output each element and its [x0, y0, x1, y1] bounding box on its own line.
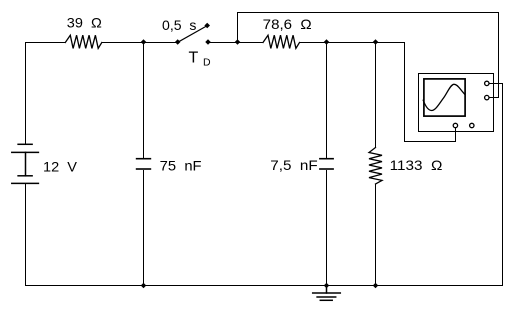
- oscilloscope terminal input right bottom: [485, 95, 489, 99]
- wire 39ohm to switch left contact: [102, 42, 178, 44]
- node junction switch left 75nF tap: [141, 39, 147, 45]
- wire 1133ohm branch upper: [375, 43, 377, 148]
- oscilloscope terminal ground right top: [485, 81, 489, 85]
- resistor 39ohm zigzag: [65, 35, 102, 48]
- oscilloscope terminal bottom right: [470, 123, 474, 127]
- battery 12V cell plates: [12, 144, 39, 183]
- svg-text:78,6 Ω: 78,6 Ω: [263, 16, 312, 32]
- wire 7.5nF branch lower: [326, 170, 328, 286]
- node junction 7.5nF top: [324, 39, 330, 45]
- svg-text:D: D: [203, 56, 211, 68]
- wire 1133ohm branch lower: [375, 184, 377, 286]
- resistor 78.6ohm zigzag: [263, 35, 300, 48]
- wire top bus to oscilloscope input: [238, 13, 499, 98]
- oscilloscope terminal bottom left: [453, 123, 457, 127]
- oscilloscope screen bezel: [424, 79, 465, 116]
- switch lever arm open: [178, 26, 208, 43]
- node junction 75nF bottom: [141, 283, 147, 289]
- capacitor 75nF plates: [137, 159, 151, 169]
- node junction 1133ohm bottom: [373, 283, 379, 289]
- node switch right contact: [205, 39, 211, 45]
- ground symbol: [313, 286, 341, 301]
- wire 78.6ohm to scope probe terminal: [300, 43, 456, 142]
- node switch left contact: [175, 39, 181, 45]
- svg-text:39 Ω: 39 Ω: [67, 14, 102, 30]
- resistor 1133ohm vertical zigzag: [369, 148, 382, 185]
- node junction top bus tap: [235, 39, 241, 45]
- wire battery top to 39ohm: [26, 43, 66, 145]
- wire switch right contact to 78.6ohm: [208, 42, 263, 44]
- svg-text:T: T: [189, 50, 199, 67]
- node switch arm tip: [204, 23, 210, 29]
- wire 75nF branch upper: [143, 43, 145, 159]
- svg-text:0,5 s: 0,5 s: [162, 17, 196, 33]
- wire 7.5nF branch upper: [326, 43, 328, 159]
- svg-text:75 nF: 75 nF: [160, 158, 202, 174]
- oscilloscope trace waveform: [423, 84, 465, 110]
- wire 75nF branch lower: [143, 170, 145, 286]
- oscilloscope U1 body: [419, 74, 494, 132]
- node junction 1133ohm top: [373, 39, 379, 45]
- wire battery bottom, ground bus and scope ground return: [26, 84, 503, 286]
- capacitor 7.5nF plates: [320, 159, 333, 169]
- node junction ground: [324, 283, 330, 289]
- svg-text:1133 Ω: 1133 Ω: [390, 157, 443, 173]
- svg-text:12 V: 12 V: [43, 158, 78, 174]
- svg-text:7,5 nF: 7,5 nF: [270, 157, 317, 173]
